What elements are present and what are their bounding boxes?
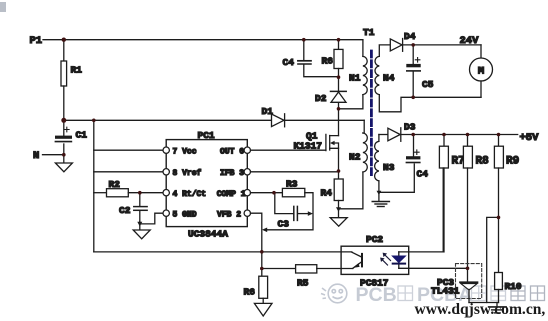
svg-text:PC1: PC1	[198, 130, 215, 141]
svg-text:24V: 24V	[460, 35, 480, 47]
junction R7 top	[442, 133, 446, 137]
diode D4	[390, 39, 402, 51]
diode D1	[272, 114, 285, 127]
shunt reg PC3 dashed box	[456, 264, 482, 299]
IC U1 PC1 UC3844A	[166, 140, 247, 227]
LED PC2 right	[398, 252, 400, 268]
capacitor C4 secondary	[413, 135, 415, 157]
svg-text:C5: C5	[422, 79, 434, 90]
pin 3	[244, 169, 250, 175]
wire N3 bottom to earth	[378, 181, 380, 201]
wire N3 top	[378, 135, 380, 142]
resistor R2	[94, 192, 107, 194]
svg-text:COMP 1: COMP 1	[217, 190, 246, 199]
optocoupler PC2 box	[341, 246, 409, 274]
svg-text:IFB 3: IFB 3	[220, 169, 244, 178]
diode D3	[379, 134, 388, 136]
wire N input	[43, 154, 64, 156]
wire TL431 bottom to R10	[469, 302, 499, 304]
svg-text:PC817: PC817	[360, 278, 389, 289]
wire COMP	[251, 192, 283, 194]
svg-text:OUT 6: OUT 6	[220, 148, 244, 157]
pin 7	[163, 147, 169, 153]
svg-text:R10: R10	[505, 281, 522, 292]
svg-text:D2: D2	[315, 93, 327, 104]
svg-text:R3: R3	[286, 179, 298, 190]
wire R9 tap to TL431 ref	[487, 217, 499, 302]
wire N4 bottom return	[379, 95, 481, 112]
wire to pin 8	[94, 171, 163, 173]
earth ground output	[496, 303, 498, 307]
svg-text:TL431: TL431	[431, 286, 460, 297]
junction C5 top	[411, 43, 415, 47]
junction COMP node	[272, 191, 276, 195]
winding N2	[363, 120, 364, 133]
pin 2	[244, 210, 250, 216]
wire Vcc branch vertical	[93, 120, 95, 252]
wire to pin 7	[94, 149, 163, 151]
junction IFB sense node	[337, 169, 341, 173]
svg-text:PC2: PC2	[366, 234, 383, 245]
svg-text:D1: D1	[262, 106, 274, 117]
resistor R6 bottom	[259, 276, 268, 298]
wire C4 secondary bottom	[379, 164, 414, 192]
wire IFB to source node	[251, 171, 339, 173]
svg-text:D3: D3	[404, 122, 416, 133]
wire top rail P1	[43, 39, 363, 41]
ground below C1	[63, 155, 65, 163]
wire LED cathode to TL431	[399, 267, 468, 269]
svg-text:R8: R8	[476, 156, 490, 168]
svg-text:C1: C1	[76, 130, 88, 141]
corner mark	[0, 2, 6, 12]
pin 4	[163, 190, 169, 196]
pin 6	[244, 147, 250, 153]
wire pin 5 to ground	[140, 213, 163, 230]
svg-text:T1: T1	[363, 27, 375, 38]
winding N3	[375, 141, 379, 181]
svg-text:N2: N2	[349, 152, 361, 163]
junction R6 snubber top	[337, 38, 341, 42]
svg-text:R6: R6	[244, 287, 256, 298]
junction R8 top	[466, 133, 470, 137]
svg-text:UC3844A: UC3844A	[188, 229, 228, 240]
junction C5 bottom	[411, 96, 415, 100]
junction VFB rail cross	[260, 250, 264, 254]
svg-text:VFB 2: VFB 2	[217, 211, 241, 220]
svg-text:N4: N4	[383, 73, 395, 84]
ground below R4	[330, 218, 347, 227]
resistor R10	[495, 273, 503, 290]
capacitor C3	[275, 193, 294, 214]
motor M	[480, 45, 482, 58]
wire N2 bottom return	[339, 172, 363, 209]
svg-text:N3: N3	[383, 162, 395, 173]
diode D2	[331, 90, 347, 92]
junction C4 snubber bottom	[337, 75, 341, 79]
wire 24V rail	[403, 44, 481, 46]
earth ground N3	[372, 201, 389, 203]
capacitor C1	[63, 120, 65, 135]
transistor Q1	[325, 134, 327, 150]
junction C1 top node	[61, 118, 66, 123]
junction R1 top rail	[62, 38, 66, 42]
ground below C2	[133, 230, 150, 239]
svg-text:R2: R2	[109, 179, 121, 190]
svg-text:5 GND: 5 GND	[173, 211, 197, 220]
svg-text:C3: C3	[278, 219, 290, 230]
svg-text:N1: N1	[349, 73, 361, 84]
wire LED anode to R7	[399, 168, 443, 252]
watermark text	[356, 284, 545, 306]
svg-text:D4: D4	[404, 31, 416, 42]
junction D2 anode node	[337, 107, 341, 111]
svg-text:+5V: +5V	[520, 132, 540, 144]
svg-text:R1: R1	[71, 65, 83, 76]
svg-text:R7: R7	[452, 156, 465, 168]
wire OUT to gate	[251, 149, 326, 151]
resistor R1	[63, 40, 65, 61]
resistor R7	[443, 135, 445, 147]
svg-text:www.dqjsw.com.cn,: www.dqjsw.com.cn,	[415, 301, 546, 318]
wire N4 top to D4	[379, 45, 390, 57]
junction R5 R6 node	[260, 267, 264, 271]
wire R3 right	[267, 193, 314, 230]
svg-text:K1317: K1317	[294, 140, 323, 151]
wire +5V rail	[401, 134, 518, 136]
wire N1 bottom to drain	[339, 95, 363, 109]
wire source to R4	[338, 148, 340, 179]
capacitor C2	[139, 193, 141, 207]
svg-text:M: M	[478, 65, 484, 77]
svg-text:C4: C4	[417, 169, 429, 180]
wire drain vertical	[338, 102, 340, 135]
wire C1 top rail	[64, 119, 364, 121]
svg-text:C2: C2	[119, 205, 131, 216]
ground below R6	[262, 298, 264, 303]
resistor R9	[498, 135, 500, 147]
resistor R4	[334, 179, 343, 201]
phototransistor PC2 left	[352, 252, 362, 257]
svg-text:R5: R5	[297, 278, 309, 289]
wire bottom rail	[94, 251, 352, 253]
svg-text:R9: R9	[506, 156, 519, 168]
svg-text:R4: R4	[321, 188, 333, 199]
transformer core	[370, 51, 373, 175]
TL431 symbol	[460, 281, 478, 283]
resistor R5	[296, 265, 317, 273]
svg-text:8 Vref: 8 Vref	[173, 169, 202, 178]
wire VFB down	[251, 213, 262, 276]
junction C2 tap	[138, 191, 142, 195]
pin 1	[244, 190, 250, 196]
capacitor C5	[412, 45, 414, 64]
capacitor C4 snubber	[303, 40, 305, 61]
svg-text:C4: C4	[283, 57, 295, 68]
svg-text:7 Vcc: 7 Vcc	[173, 148, 197, 157]
junction C4 snubber top	[302, 38, 306, 42]
junction R9 top	[497, 133, 501, 137]
pin 5	[163, 210, 169, 216]
junction arrow N3	[377, 191, 382, 195]
junction arrow R4 bottom	[336, 207, 341, 212]
resistor R8	[467, 135, 469, 147]
resistor R6 snubber	[338, 40, 340, 50]
wire R5 feed	[262, 268, 296, 270]
svg-text:P1: P1	[30, 35, 43, 47]
junction C4 secondary top	[411, 133, 415, 137]
svg-text:N: N	[33, 150, 39, 162]
svg-text:4 Rt/Ct: 4 Rt/Ct	[173, 190, 207, 199]
junction N input	[62, 153, 66, 157]
svg-text:R6: R6	[322, 56, 334, 67]
junction arrow into VFB line	[262, 228, 267, 233]
LED emission arrows	[384, 254, 391, 261]
junction Vcc branch	[92, 119, 96, 123]
resistor R3	[282, 188, 304, 196]
winding N4	[375, 56, 379, 94]
watermark logo	[321, 284, 347, 303]
winding N1	[362, 40, 364, 57]
junction R9 R10 divider	[497, 216, 501, 220]
pin 8	[163, 169, 169, 175]
junction arrow C2 ground	[137, 222, 142, 227]
junction LED cathode node	[466, 267, 470, 271]
